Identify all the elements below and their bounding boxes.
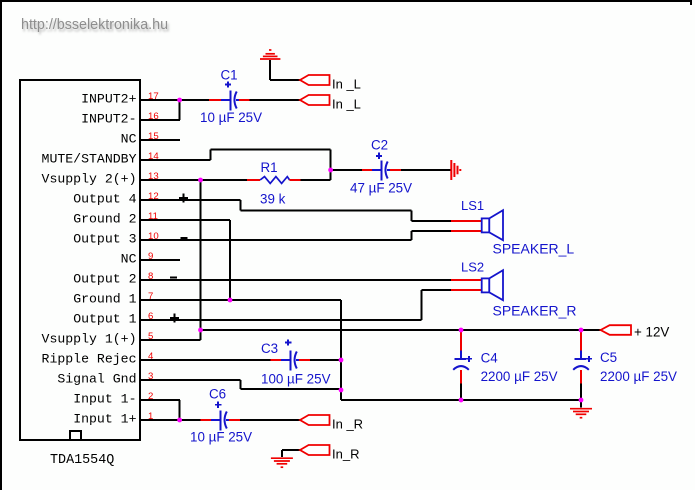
junction dots (net connection points) [177, 98, 182, 103]
ground (main, below C5) [580, 400, 582, 408]
svg-text:Output 2: Output 2 [73, 272, 136, 287]
capacitor C5 2200uF [580, 331, 582, 350]
svg-text:12: 12 [148, 191, 159, 202]
svg-text:1: 1 [148, 411, 153, 422]
pin 9 (NC) [139, 259, 180, 261]
svg-text:2: 2 [148, 391, 153, 402]
svg-text:C2: C2 [371, 138, 388, 153]
svg-text:17: 17 [148, 91, 159, 102]
wire: Input 1- / Input 1+ tie [179, 400, 181, 420]
wire: shield ground to In_L [270, 79, 300, 81]
wire: Output 2 to LS2 - [180, 279, 451, 281]
svg-text:MUTE/STANDBY: MUTE/STANDBY [42, 152, 137, 167]
ground (right input shield) [281, 450, 283, 457]
speaker LS2 SPEAKER_R [451, 279, 481, 281]
svg-text:In_R: In_R [332, 447, 359, 462]
svg-text:2200 µF 25V: 2200 µF 25V [600, 369, 677, 384]
svg-text:SPEAKER_R: SPEAKER_R [493, 303, 577, 319]
svg-text:Input 1+: Input 1+ [73, 412, 136, 427]
connector In _L (signal) [300, 95, 330, 105]
wire: ground rail [341, 399, 581, 401]
svg-text:6: 6 [148, 311, 153, 322]
pin 4 (Ripple Rejec) [139, 359, 180, 361]
ground (C2, right facing) [450, 160, 452, 180]
pin 8 (Output 2) [139, 279, 180, 281]
svg-text:10 µF 25V: 10 µF 25V [190, 430, 252, 445]
svg-text:Ripple Rejec: Ripple Rejec [42, 352, 137, 367]
svg-text:R1: R1 [261, 160, 278, 175]
wire: Output 3 to LS1 - [180, 239, 412, 241]
wire: Ground 1 to ground rail [180, 299, 341, 301]
pin 1 (Input 1+) [139, 419, 180, 421]
svg-text:Output 3: Output 3 [73, 232, 136, 247]
pin 5 (Vsupply 1(+)) [139, 339, 180, 341]
pin 14 (MUTE/STANDBY) [139, 159, 180, 161]
svg-text:15: 15 [148, 131, 159, 142]
svg-text:INPUT2-: INPUT2- [81, 112, 136, 127]
svg-text:7: 7 [148, 291, 153, 302]
svg-text:Ground 2: Ground 2 [73, 212, 136, 227]
wire: Output 4 to LS1 + [180, 199, 240, 201]
svg-text:In _L: In _L [332, 77, 361, 92]
wire: shield In_R to ground [282, 449, 300, 451]
svg-text:14: 14 [148, 151, 159, 162]
connector In_R (shield) [300, 445, 330, 455]
capacitor C4 2200uF [460, 331, 462, 350]
svg-text:Ground 1: Ground 1 [73, 292, 136, 307]
wire: INPUT2+ / INPUT2- tie [179, 100, 181, 120]
svg-text:Vsupply 1(+): Vsupply 1(+) [42, 332, 137, 347]
pin 17 (INPUT2+) [139, 99, 180, 101]
svg-text:C6: C6 [209, 387, 226, 402]
svg-text:LS1: LS1 [461, 198, 484, 213]
pin 10 (Output 3) [139, 239, 180, 241]
pin 11 (Ground 2) [139, 219, 180, 221]
connector In _L (shield) [300, 75, 330, 85]
capacitor C6 10uF [180, 419, 201, 421]
connector +12V [601, 325, 631, 335]
connector In _R (signal) [300, 415, 330, 425]
svg-text:+ 12V: + 12V [634, 325, 669, 340]
svg-text:100 µF 25V: 100 µF 25V [261, 372, 331, 387]
svg-text:13: 13 [148, 171, 159, 182]
speaker LS1 SPEAKER_L [412, 220, 451, 222]
svg-text:Input 1-: Input 1- [73, 392, 136, 407]
capacitor C2 47uF [331, 169, 362, 171]
svg-text:C3: C3 [261, 341, 278, 356]
wire: C6 to In_R [240, 419, 300, 421]
pin 16 (INPUT2-) [139, 119, 180, 121]
ground (left input shield) [269, 60, 271, 80]
svg-text:5: 5 [148, 331, 153, 342]
svg-text:39 k: 39 k [260, 192, 286, 207]
svg-text:INPUT2+: INPUT2+ [81, 92, 136, 107]
wire: Signal Gnd to ground [180, 379, 240, 381]
wire: supply tie pin13 to pin5 [200, 180, 202, 340]
svg-text:2200 µF 25V: 2200 µF 25V [481, 369, 558, 384]
svg-text:47 µF 25V: 47 µF 25V [350, 181, 412, 196]
pin 2 (Input 1-) [139, 399, 180, 401]
pin 3 (Signal Gnd) [139, 379, 180, 381]
svg-text:10 µF 25V: 10 µF 25V [200, 110, 262, 125]
svg-text:TDA1554Q: TDA1554Q [50, 453, 114, 468]
svg-text:Signal Gnd: Signal Gnd [57, 372, 136, 387]
svg-text:C1: C1 [221, 68, 238, 83]
capacitor C3 100uF [180, 359, 271, 361]
svg-text:SPEAKER_L: SPEAKER_L [493, 241, 575, 257]
pin 12 (Output 4) [139, 199, 180, 201]
svg-text:Output 1: Output 1 [73, 312, 136, 327]
pin 13 (Vsupply 2(+)) [139, 179, 180, 181]
svg-text:Vsupply 2(+): Vsupply 2(+) [42, 172, 137, 187]
svg-text:Output 4: Output 4 [73, 192, 136, 207]
pin 7 (Ground 1) [139, 299, 180, 301]
wire: C1 to In_L [250, 99, 301, 101]
svg-text:http://bsselektronika.hu: http://bsselektronika.hu [21, 17, 168, 33]
svg-text:In _L: In _L [332, 97, 361, 112]
svg-text:NC: NC [121, 132, 137, 147]
svg-text:10: 10 [148, 231, 159, 242]
pin 15 (NC) [139, 139, 180, 141]
svg-text:LS2: LS2 [461, 260, 484, 275]
svg-text:3: 3 [148, 371, 153, 382]
wire: MUTE/STANDBY loop [180, 159, 210, 161]
svg-text:4: 4 [148, 351, 154, 362]
wire: +12V rail [201, 329, 601, 331]
svg-text:11: 11 [148, 211, 158, 222]
svg-text:16: 16 [148, 111, 159, 122]
svg-text:C5: C5 [600, 350, 617, 365]
svg-text:9: 9 [148, 251, 153, 262]
schematic frame border [0, 0, 692, 2]
IC U1 TDA1554Q body [20, 80, 140, 440]
wire: Ground 2 to Ground 1 [180, 219, 230, 221]
svg-text:NC: NC [121, 252, 137, 267]
resistor R1 39k [180, 179, 247, 181]
svg-text:C4: C4 [481, 351, 499, 366]
svg-text:In _R: In _R [332, 417, 363, 432]
capacitor C1 10uF [180, 99, 209, 101]
svg-text:8: 8 [148, 271, 153, 282]
wire: Output 1 to LS2 + [180, 319, 421, 321]
pin 6 (Output 1) [139, 319, 180, 321]
